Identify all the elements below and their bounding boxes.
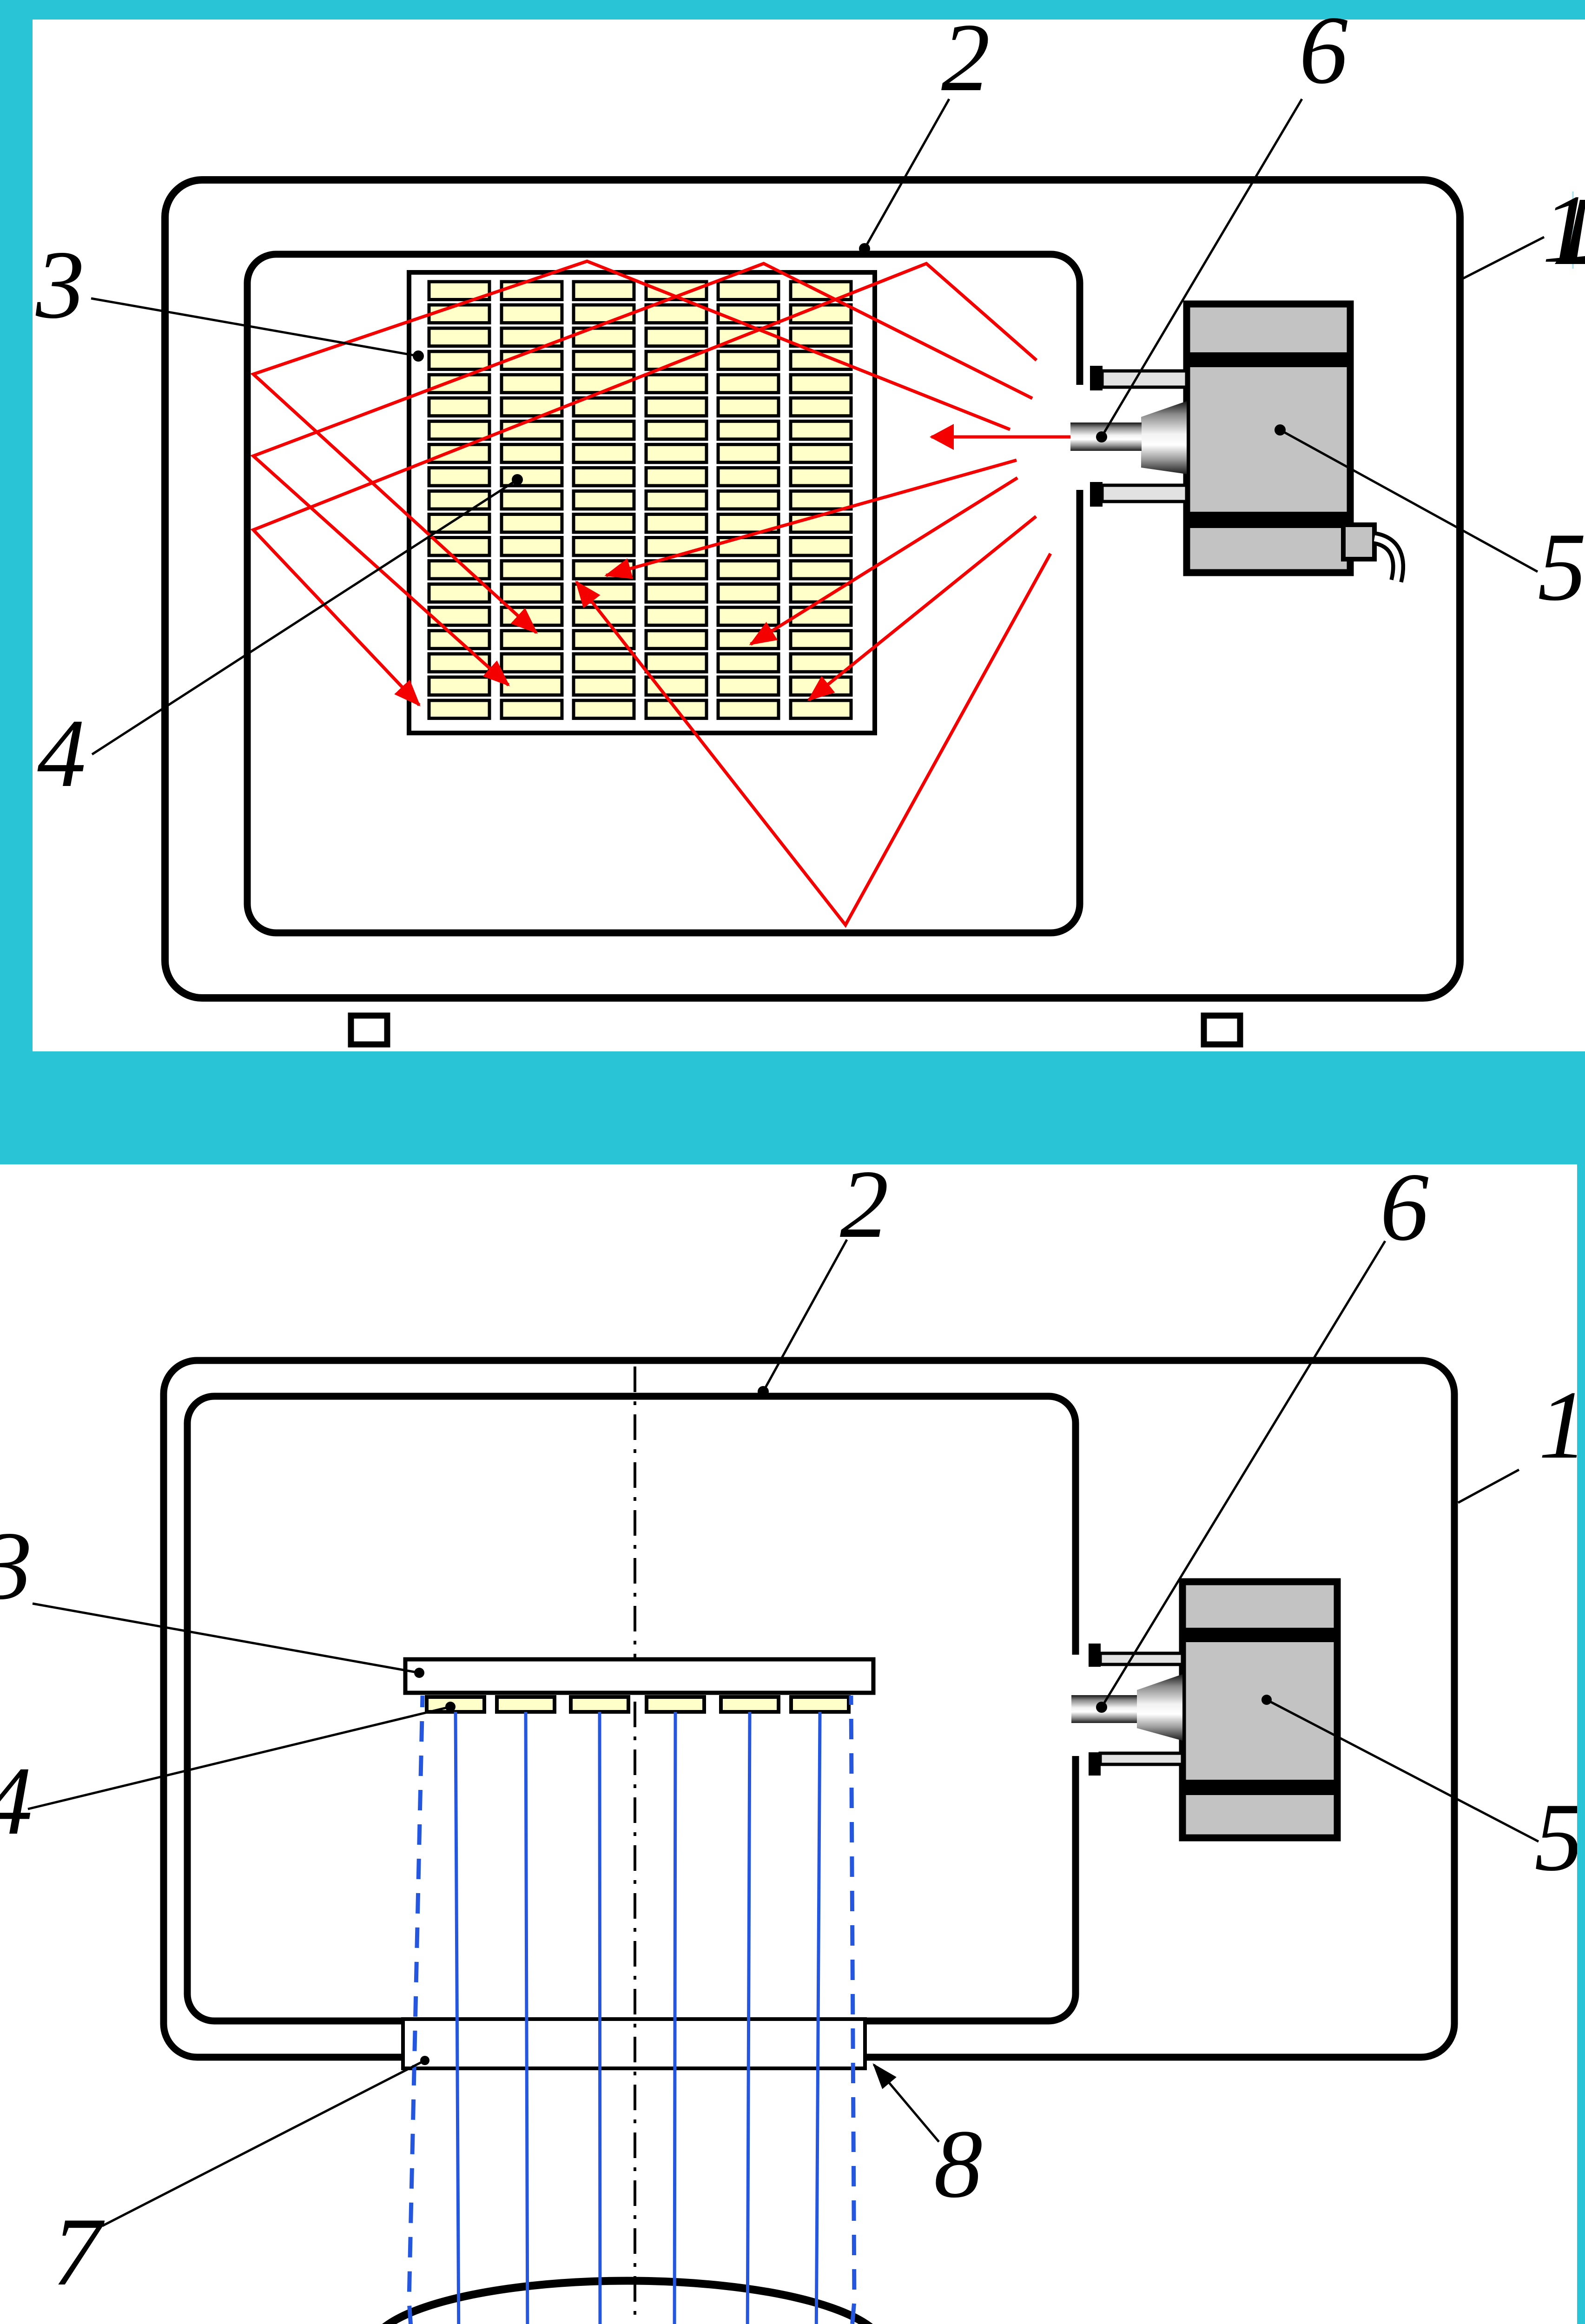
svg-text:2: 2 [941, 4, 990, 112]
svg-text:3: 3 [35, 231, 85, 339]
svg-text:4: 4 [37, 700, 86, 807]
svg-text:6: 6 [1380, 1153, 1429, 1261]
svg-text:5: 5 [1538, 513, 1585, 621]
svg-text:8: 8 [934, 2110, 983, 2218]
svg-text:2: 2 [840, 1150, 889, 1258]
svg-text:5: 5 [1534, 1783, 1583, 1891]
svg-text:3: 3 [0, 1512, 32, 1620]
svg-text:7: 7 [53, 2198, 105, 2306]
svg-text:4: 4 [0, 1747, 33, 1855]
svg-text:6: 6 [1299, 0, 1348, 104]
